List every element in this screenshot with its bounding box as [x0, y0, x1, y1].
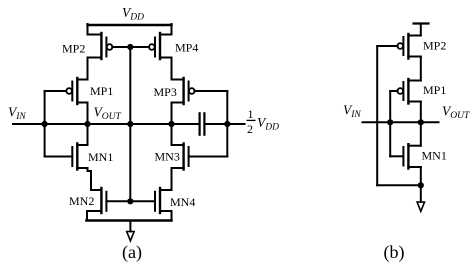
- wire: MN3 drain up to mid rail: [171, 124, 173, 145]
- label VIN (a): [8, 105, 26, 123]
- wire: MN1 gate lead from VIN line: [45, 156, 73, 158]
- bottom rail (sources of MN2/MN4): [87, 219, 172, 222]
- label MN3 (a): [155, 150, 180, 164]
- label MN4 (a): [170, 195, 195, 209]
- caption (b): [384, 242, 405, 263]
- wire: MN4 source to bottom rail: [171, 211, 173, 221]
- wire: MP4 drain to MP3 source: [171, 58, 173, 80]
- node B junction dot (cap right plate net): [224, 121, 230, 127]
- svg-text:MP4: MP4: [175, 41, 198, 55]
- wire: left vertical from MP2(b) gate down to source rail: [376, 46, 378, 185]
- node G junction dot (MP2/MP4 gates): [127, 44, 133, 50]
- node VOUT junction dot: [84, 121, 90, 127]
- wire: MP4 gate lead to node G: [130, 46, 149, 48]
- label MP2 (b): [423, 39, 446, 53]
- wire: MP3 gate lead to node B: [194, 90, 227, 92]
- wire: MP2 gate lead to node G: [112, 46, 130, 48]
- wire: mid rail right of capacitor: [206, 123, 245, 125]
- svg-text:MP2: MP2: [62, 42, 85, 56]
- caption (a): [122, 242, 142, 263]
- node ground junction dot (b): [418, 182, 424, 188]
- wire: VIN gate vertical (MP1/MN1 gates): [44, 91, 46, 157]
- svg-text:(a): (a): [122, 242, 142, 263]
- transistor MP2 (b): [397, 34, 420, 59]
- svg-text:MN1: MN1: [422, 149, 447, 163]
- wire: input vertical (MP1/MN1 gates): [389, 91, 391, 156]
- transistor MP3: [172, 78, 195, 104]
- VDD tee symbol (b): [414, 24, 429, 36]
- wire: MN3 gate lead to node B: [189, 156, 228, 158]
- node MN2/MN4 gate junction dot: [127, 198, 133, 204]
- node VIN junction dot (b): [387, 119, 393, 125]
- wire: MN3 source down to MN4 drain: [171, 168, 173, 190]
- svg-text:MP3: MP3: [154, 85, 177, 99]
- wire: node B vertical (MP3 gate to MN3 gate): [226, 91, 228, 157]
- label MP4 (a): [175, 41, 198, 55]
- transistor MN1: [72, 144, 87, 170]
- ground symbol (a): [127, 222, 134, 241]
- transistor MP2: [88, 33, 113, 59]
- transistor MP4: [149, 33, 172, 59]
- svg-text:MP2: MP2: [423, 39, 446, 53]
- wire: MP2 source stub to VDD rail: [87, 24, 89, 35]
- svg-text:(b): (b): [384, 242, 405, 263]
- wire: MP1 drain to VOUT node: [87, 103, 89, 125]
- wire: center vertical net (gates bias line): [129, 47, 131, 201]
- wire: MP3 drain down to mid rail: [171, 103, 173, 125]
- label MP1 (b): [423, 83, 446, 97]
- label 1/2 VDD (a): [247, 107, 280, 136]
- wire: VIN to VOUT horizontal line (b): [363, 121, 439, 123]
- node VIN junction dot: [42, 121, 48, 127]
- wire: mid rail left of capacitor (VIN/VOUT row): [13, 123, 199, 125]
- label MP1 (a): [90, 84, 113, 98]
- wire: bottom horizontal to ground node (b): [377, 184, 421, 186]
- wire: MP1(b) drain to VOUT node: [420, 102, 422, 123]
- wire: MN4 gate lead from center line: [130, 200, 155, 202]
- wire: MP1(b) gate lead to input vertical: [390, 90, 397, 92]
- label VOUT (b): [442, 104, 470, 122]
- label VDD (a): [122, 5, 144, 23]
- wire: MP2(b) gate lead to left vertical: [377, 45, 397, 47]
- svg-text:MN3: MN3: [155, 150, 180, 164]
- transistor MP1 (b): [397, 79, 420, 104]
- wire: MN2 source to bottom rail: [86, 211, 88, 221]
- wire: MN1(b) source down to ground node: [420, 167, 422, 185]
- svg-text:2: 2: [247, 122, 253, 136]
- label VOUT (a): [94, 105, 122, 123]
- label VIN (b): [343, 103, 361, 121]
- wire: MP4 source stub to VDD rail: [171, 24, 173, 35]
- wire: MP1 gate lead from VIN line: [45, 90, 67, 92]
- node VOUT junction dot (b): [418, 119, 424, 125]
- label MN1 (a): [88, 150, 113, 164]
- label MN1 (b): [422, 149, 447, 163]
- node MP3-MN3 drain junction dot: [168, 121, 174, 127]
- wire: MN1 drain up to VOUT node: [87, 124, 89, 145]
- wire: MP2(b) drain to MP1(b) source: [420, 57, 422, 81]
- capacitor C1: [200, 113, 205, 134]
- wire: MN1(b) gate lead: [390, 155, 403, 157]
- VDD power rail: [88, 24, 172, 26]
- svg-text:MP1: MP1: [90, 84, 113, 98]
- svg-text:MN2: MN2: [69, 194, 94, 208]
- label MN2 (a): [69, 194, 94, 208]
- wire: MN1 source jog down to MN2 drain: [88, 168, 92, 190]
- wire: MN1(b) drain up to VOUT node: [420, 122, 422, 145]
- transistor MN2: [87, 188, 106, 213]
- svg-text:MN1: MN1: [88, 150, 113, 164]
- svg-text:MP1: MP1: [423, 83, 446, 97]
- transistor MN1 (b): [403, 144, 420, 168]
- transistor MN4: [155, 188, 172, 213]
- wire: MN2 gate lead to center line: [106, 200, 130, 202]
- wire: MP2 drain to MP1 source: [87, 58, 89, 80]
- transistor MN3: [172, 144, 189, 170]
- label MP2 (a): [62, 42, 85, 56]
- svg-text:1: 1: [248, 107, 254, 121]
- transistor MP1: [66, 78, 87, 104]
- node center/mid-rail junction dot: [127, 121, 133, 127]
- ground symbol (b): [417, 185, 424, 211]
- label MP3 (a): [154, 85, 177, 99]
- svg-text:MN4: MN4: [170, 195, 195, 209]
